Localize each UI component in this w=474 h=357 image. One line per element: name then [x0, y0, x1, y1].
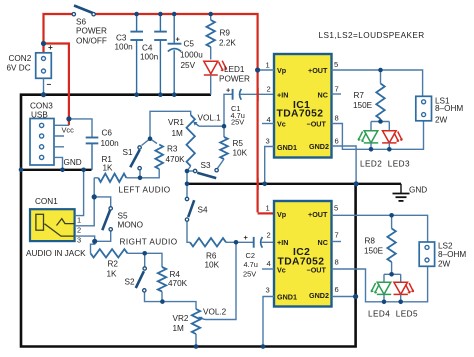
svg-text:8–OHM: 8–OHM	[438, 250, 466, 259]
resistor R7	[380, 70, 382, 84]
wire CON1 pin3 to right-audio node	[75, 236, 95, 241]
node IC1 Vp tap	[255, 67, 260, 72]
node R6 / C2 / VR2 wiper	[234, 240, 239, 245]
svg-text:S4: S4	[198, 206, 208, 215]
wire red branch to USB Vcc	[44, 44, 69, 126]
svg-text:C3: C3	[116, 34, 127, 43]
svg-text:CON1: CON1	[35, 197, 58, 206]
svg-text:8–OHM: 8–OHM	[435, 104, 463, 113]
node R9 top on +6V rail	[208, 12, 213, 17]
svg-text:100n: 100n	[101, 139, 120, 148]
svg-text:6V DC: 6V DC	[7, 64, 31, 73]
svg-text:Vc: Vc	[277, 120, 286, 129]
svg-text:100n: 100n	[140, 53, 159, 62]
node IC2 GND2 on ground	[353, 294, 358, 299]
wire USB NC stubs	[54, 136, 64, 147]
svg-text:+OUT: +OUT	[308, 210, 328, 219]
node LED4 cathode	[382, 300, 387, 305]
svg-text:1000u: 1000u	[180, 51, 203, 60]
svg-text:150E: 150E	[353, 101, 373, 110]
svg-text:MONO: MONO	[118, 221, 143, 230]
svg-text:C6: C6	[102, 129, 113, 138]
svg-text:1K: 1K	[107, 270, 118, 279]
svg-text:GND: GND	[64, 158, 82, 167]
wire LED cathodes to -OUT bus	[371, 143, 389, 149]
svg-text:2: 2	[77, 226, 81, 235]
wire IC1 pin1 Vp from red rail	[258, 69, 274, 71]
wire red overlay at +IN crossing	[257, 88, 259, 101]
capacitor C5 electrolytic	[168, 14, 182, 95]
svg-text:1M: 1M	[173, 324, 185, 333]
svg-text:POWER: POWER	[219, 75, 250, 84]
LED3 (red)	[382, 131, 402, 143]
wire VR2 wiper to C2 node	[205, 242, 236, 319]
svg-text:LED1: LED1	[224, 65, 245, 74]
capacitor C2	[236, 241, 253, 243]
svg-text:2W: 2W	[438, 260, 451, 269]
switch S2	[144, 253, 146, 267]
svg-text:25V: 25V	[231, 117, 244, 126]
svg-text:4: 4	[267, 259, 271, 268]
node C4 top on +6V rail	[158, 12, 163, 17]
node R8 bottom / LED anodes	[389, 272, 394, 277]
svg-text:10K: 10K	[233, 149, 248, 158]
resistor R6	[190, 238, 226, 246]
svg-text:1M: 1M	[172, 129, 184, 138]
node VR1 bottom / S3	[185, 169, 190, 174]
svg-text:7: 7	[335, 85, 339, 94]
capacitor C1	[224, 94, 232, 126]
wire IC1 pin8 -OUT to LED bus and LS1 bottom	[332, 121, 424, 150]
svg-text:LS1,LS2=LOUDSPEAKER: LS1,LS2=LOUDSPEAKER	[319, 31, 425, 40]
node S1/R3/VR1 top	[148, 136, 153, 141]
svg-text:POWER: POWER	[76, 27, 107, 36]
wire IC2 pin3 GND1 to bottom ground rail	[263, 297, 274, 347]
switch S6 POWER ON/OFF	[72, 6, 95, 16]
node R8 top / +OUT	[389, 213, 394, 218]
node CON2 plus branch	[41, 41, 46, 46]
svg-text:1: 1	[266, 61, 270, 70]
LED2 (green)	[358, 131, 378, 143]
wire Vcc node to C6	[69, 119, 92, 137]
capacitor C6	[86, 138, 99, 170]
svg-text:VOL.2: VOL.2	[203, 308, 227, 317]
svg-text:−: −	[47, 80, 52, 89]
node CON2 minus on ground	[41, 92, 46, 97]
svg-text:+IN: +IN	[277, 91, 288, 100]
node R7 bottom / LED anodes	[378, 119, 383, 124]
capacitor C4	[154, 14, 167, 95]
svg-text:5: 5	[334, 60, 338, 69]
wire CON2 minus to ground	[43, 78, 45, 94]
svg-text:C2: C2	[246, 251, 255, 260]
node R1/S1/R3	[138, 176, 143, 181]
node right audio	[92, 239, 97, 244]
wire IC1 pin7 NC stub	[332, 93, 342, 95]
svg-text:100n: 100n	[115, 43, 134, 52]
wire USB Vcc stub	[54, 124, 69, 126]
node C5 bottom on ground	[172, 92, 177, 97]
svg-text:S3: S3	[201, 161, 211, 170]
wire LED4/5 cathodes to -OUT bus	[384, 294, 401, 301]
svg-text:Vcc: Vcc	[62, 126, 75, 135]
resistor R8	[391, 215, 393, 228]
node left audio	[92, 194, 97, 199]
node USB GND on ground	[60, 168, 65, 173]
svg-text:GND2: GND2	[309, 142, 329, 151]
wire IC1 pin5 +OUT to R7 and LS1	[332, 70, 423, 96]
wire IC2 pin5 +OUT to R8 and LS2	[332, 215, 428, 242]
node C4 bottom on ground	[158, 92, 163, 97]
svg-text:1: 1	[77, 216, 81, 225]
svg-text:4: 4	[267, 115, 271, 124]
svg-text:R6: R6	[206, 252, 217, 261]
node ground branch corner	[19, 168, 24, 173]
node IC2 GND1 on ground rail	[261, 344, 266, 349]
svg-text:CON3: CON3	[30, 102, 53, 111]
svg-text:470K: 470K	[168, 279, 188, 288]
svg-text:2W: 2W	[435, 116, 448, 125]
node IC1 GND2 on ground	[354, 181, 359, 186]
svg-text:GND1: GND1	[277, 293, 297, 302]
svg-text:25V: 25V	[243, 270, 256, 279]
resistor R1	[94, 177, 140, 179]
ground main rectangle (thick black GND bus)	[21, 95, 356, 347]
svg-text:+: +	[244, 233, 249, 242]
svg-text:5: 5	[334, 204, 338, 213]
switch S5 MONO	[94, 197, 111, 207]
VR2 wiper arrow VOL.2	[201, 318, 205, 319]
connector CON3 USB	[30, 119, 54, 166]
svg-text:ON/OFF: ON/OFF	[76, 37, 107, 46]
svg-text:4.7u: 4.7u	[244, 260, 258, 269]
wire IC2 pin7 NC stub	[332, 241, 342, 243]
node LED3 cathode	[387, 147, 392, 152]
svg-text:S5: S5	[118, 212, 128, 221]
svg-text:R5: R5	[233, 139, 244, 148]
VR1 wiper arrow VOL.1	[195, 123, 199, 126]
svg-text:GND1: GND1	[277, 143, 297, 152]
svg-text:6: 6	[335, 285, 339, 294]
wire VR1 bottom node down through ground to S4	[186, 171, 188, 197]
loudspeaker LS1	[416, 96, 432, 121]
wire IC2 pin8 -OUT to LED bus and LS2 bottom	[332, 266, 428, 302]
node C3 top on +6V rail	[134, 12, 139, 17]
resistor R2	[91, 241, 145, 253]
potentiometer VR2	[162, 302, 196, 309]
svg-text:LED2 LED3: LED2 LED3	[360, 160, 410, 169]
wire LED1 cathode to ground	[210, 75, 212, 95]
LED4 (green)	[371, 282, 391, 294]
svg-text:C5: C5	[184, 40, 195, 49]
resistor R9	[210, 14, 212, 60]
svg-text:Vp: Vp	[277, 210, 287, 219]
node VR1 wiper / C1 / R5	[222, 124, 227, 129]
node R7 top / +OUT	[378, 68, 383, 73]
node LED2 cathode	[369, 147, 374, 152]
svg-text:6: 6	[335, 137, 339, 146]
svg-text:AUDIO IN JACK: AUDIO IN JACK	[26, 249, 86, 258]
svg-text:470K: 470K	[166, 155, 186, 164]
svg-text:+: +	[48, 43, 53, 52]
svg-text:R9: R9	[220, 29, 231, 38]
loudspeaker LS2	[419, 242, 434, 266]
svg-text:1: 1	[266, 204, 270, 213]
svg-text:RIGHT AUDIO: RIGHT AUDIO	[120, 238, 178, 247]
node C3 bottom on ground	[134, 92, 139, 97]
ground symbol	[393, 184, 410, 201]
svg-text:S6: S6	[76, 18, 86, 27]
svg-text:+IN: +IN	[277, 238, 288, 247]
wire R8 bottom to LED4/LED5 anodes	[384, 274, 401, 281]
svg-text:2.2K: 2.2K	[219, 39, 236, 48]
svg-text:Vc: Vc	[277, 266, 286, 275]
wire R7 bottom to LED2/LED3 anodes	[371, 122, 389, 131]
node jack sleeve on ground	[81, 168, 86, 173]
svg-text:7: 7	[335, 231, 339, 240]
LED5 (red)	[394, 282, 414, 294]
svg-text:3: 3	[266, 137, 270, 146]
svg-text:LEFT AUDIO: LEFT AUDIO	[119, 186, 171, 195]
node IC1 GND1 on ground	[262, 182, 267, 187]
svg-text:−OUT: −OUT	[307, 120, 327, 129]
wire +6V red rail from CON2 through S6 to IC column	[44, 14, 274, 213]
wire red overlay at ground-bus crossing	[257, 178, 259, 190]
node VR2 bottom on ground rail	[194, 344, 199, 349]
resistor R4	[145, 253, 162, 267]
svg-text:NC: NC	[318, 91, 328, 100]
switch S1	[142, 139, 151, 146]
ground branch bus y=184	[187, 183, 401, 185]
svg-text:−OUT: −OUT	[307, 266, 327, 275]
svg-text:2: 2	[267, 85, 271, 94]
svg-text:R4: R4	[170, 270, 181, 279]
svg-text:LED4 LED5: LED4 LED5	[368, 310, 418, 319]
svg-text:+: +	[176, 35, 181, 44]
svg-text:R8: R8	[365, 237, 376, 246]
svg-text:GND2: GND2	[309, 291, 329, 300]
svg-text:8: 8	[335, 258, 339, 267]
svg-text:150E: 150E	[364, 247, 384, 256]
wire IC1 pin6 GND2 to ground	[332, 146, 357, 184]
wire red into IC2 Vp	[258, 212, 274, 214]
ground branch bus y=170	[21, 169, 92, 171]
svg-text:VR2: VR2	[173, 314, 189, 323]
wire USB GND to ground bus	[54, 157, 63, 169]
svg-text:USB: USB	[31, 111, 48, 120]
svg-text:R3: R3	[167, 145, 178, 154]
connector CON1 audio jack	[30, 209, 75, 241]
svg-text:VR1: VR1	[168, 118, 184, 127]
wire IC2 pin6 GND2 to ground bus	[332, 296, 356, 298]
svg-text:1K: 1K	[103, 164, 114, 173]
svg-text:C4: C4	[142, 44, 153, 53]
wire IC1 pin4 Vc stub	[262, 123, 274, 125]
svg-text:GND: GND	[409, 186, 427, 195]
switch S3	[187, 170, 193, 172]
svg-text:8: 8	[335, 114, 339, 123]
switch S4	[187, 221, 190, 242]
IC1 TDA7052	[274, 54, 332, 158]
svg-text:10K: 10K	[205, 261, 220, 270]
svg-text:R2: R2	[108, 260, 119, 269]
svg-text:S1: S1	[123, 148, 133, 157]
svg-text:R7: R7	[354, 91, 365, 100]
node C5 top on +6V rail	[172, 12, 177, 17]
IC2 TDA7052	[274, 201, 332, 307]
node R4 bottom / VR2 top	[160, 299, 165, 304]
svg-text:TDA7052: TDA7052	[277, 109, 324, 120]
wire CON1 pin1 sleeve to ground bus	[75, 170, 84, 216]
wire IC2 pin4 Vc stub	[262, 268, 274, 270]
svg-text:+: +	[226, 86, 231, 95]
svg-text:2: 2	[267, 231, 271, 240]
connector CON2 6V DC	[36, 53, 52, 79]
svg-text:S2: S2	[125, 278, 135, 287]
LED1 POWER (red)	[204, 61, 227, 75]
node S4 riser on ground	[185, 182, 190, 187]
svg-text:3: 3	[266, 286, 270, 295]
node top wire to VR1	[150, 111, 191, 138]
potentiometer VR1	[187, 115, 195, 166]
svg-text:VOL.1: VOL.1	[198, 114, 222, 123]
wire CON1 pin2 to left-audio node	[75, 178, 95, 226]
resistor R5	[223, 126, 225, 137]
node LED5 cathode	[398, 300, 403, 305]
capacitor C3	[130, 14, 143, 95]
resistor R3	[140, 139, 159, 178]
svg-text:CON2: CON2	[9, 54, 32, 63]
svg-text:25V: 25V	[181, 61, 196, 70]
wire wiper to C1/R5 node	[199, 125, 224, 127]
node Vcc / C6 branch	[66, 116, 71, 121]
svg-text:Vp: Vp	[277, 66, 287, 75]
node R2/S2/R4	[142, 251, 147, 256]
svg-text:NC: NC	[318, 238, 328, 247]
svg-text:+OUT: +OUT	[308, 66, 328, 75]
svg-text:3: 3	[77, 236, 81, 245]
wire IC1 pin3 GND1 to ground	[265, 147, 274, 184]
